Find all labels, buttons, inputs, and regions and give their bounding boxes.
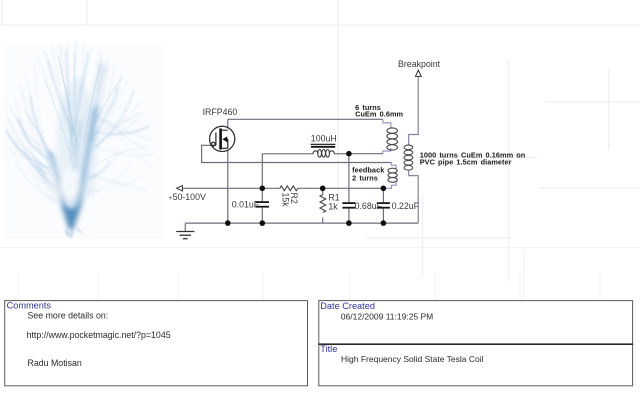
transformer feedback coil 2 turns: [388, 168, 397, 182]
wire 0.68uF branch: [348, 154, 350, 223]
svg-text:Title: Title: [320, 344, 337, 354]
supply arrow: [177, 186, 183, 191]
wire primary top staircase: [383, 119, 396, 188]
wire feedback top staircase: [391, 163, 396, 169]
wire R1 leads: [322, 188, 324, 223]
resistor R1 1k: [320, 195, 326, 213]
breakpoint arrow: [415, 70, 421, 76]
title block comments box: [5, 301, 308, 386]
ground: [176, 232, 194, 239]
svg-text:Comments: Comments: [7, 301, 52, 311]
title block date box: [319, 301, 633, 345]
inductor L1 core bars: [311, 143, 336, 145]
wire gate to feedback line: [202, 145, 392, 162]
svg-text:IRFP460: IRFP460: [203, 107, 238, 117]
inductor L1 100uH coil: [313, 150, 334, 158]
svg-text:0.01uF: 0.01uF: [232, 199, 260, 209]
wire 0.22uF branch: [382, 188, 384, 223]
svg-text:PVC pipe 1.5cm diameter: PVC pipe 1.5cm diameter: [420, 157, 512, 166]
wire drain rail: [182, 119, 418, 231]
svg-text:http://www.pocketmagic.net/?p=: http://www.pocketmagic.net/?p=1045: [27, 330, 171, 340]
capacitor C2 0.68uF plates: [342, 203, 355, 208]
svg-text:Date Created: Date Created: [320, 301, 375, 311]
wire 100uH left: [262, 153, 313, 155]
wire 100uH right: [334, 153, 349, 155]
wire ground stub: [184, 223, 186, 231]
svg-text:CuEm 0.6mm: CuEm 0.6mm: [355, 110, 403, 119]
wire supply rail left: [182, 187, 280, 189]
transistor Q1 IRFP460 MOSFET: [210, 126, 235, 151]
wire primary bottom staircase: [383, 148, 391, 154]
svg-text:R2: R2: [289, 193, 299, 204]
wire 100uH tap down: [261, 154, 263, 189]
wire feedback bottom staircase: [383, 181, 396, 188]
wire breakpoint vertical: [409, 76, 419, 223]
wire source vertical: [227, 151, 229, 224]
svg-text:0.68uF: 0.68uF: [355, 201, 383, 211]
svg-text:See more details on:: See more details on:: [28, 310, 109, 320]
transformer secondary coil 1000 turns: [404, 145, 413, 170]
resistor R2 15k: [280, 186, 298, 191]
wire primary bottom to junction: [349, 153, 383, 155]
svg-text:Breakpoint: Breakpoint: [398, 59, 441, 69]
title block title box: [319, 344, 633, 386]
svg-text:2 turns: 2 turns: [352, 173, 378, 182]
svg-text:+50-100V: +50-100V: [169, 192, 206, 202]
capacitor C3 0.22uF plates: [377, 203, 390, 208]
photo of spark discharge: [4, 42, 163, 239]
svg-text:1k: 1k: [328, 201, 338, 211]
svg-text:100uH: 100uH: [311, 134, 337, 144]
wire secondary bottom lead: [409, 171, 419, 223]
svg-text:0.22uF: 0.22uF: [392, 201, 420, 211]
junction dots: [225, 151, 386, 226]
wire drain vertical: [227, 119, 229, 128]
svg-text:06/12/2009 11:19:25 PM: 06/12/2009 11:19:25 PM: [341, 311, 433, 321]
wire 0.01uF branch: [261, 188, 263, 223]
capacitor C1 0.01uF plates: [256, 202, 269, 207]
divider dark line: [318, 343, 633, 345]
svg-text:Radu Motisan: Radu Motisan: [28, 358, 82, 368]
svg-text:15k: 15k: [281, 193, 291, 208]
svg-text:High Frequency Solid State Tes: High Frequency Solid State Tesla Coil: [341, 354, 484, 364]
wire ground rail: [185, 222, 418, 224]
wire supply rail right: [298, 187, 384, 189]
transformer primary coil 6 turns: [387, 128, 398, 150]
